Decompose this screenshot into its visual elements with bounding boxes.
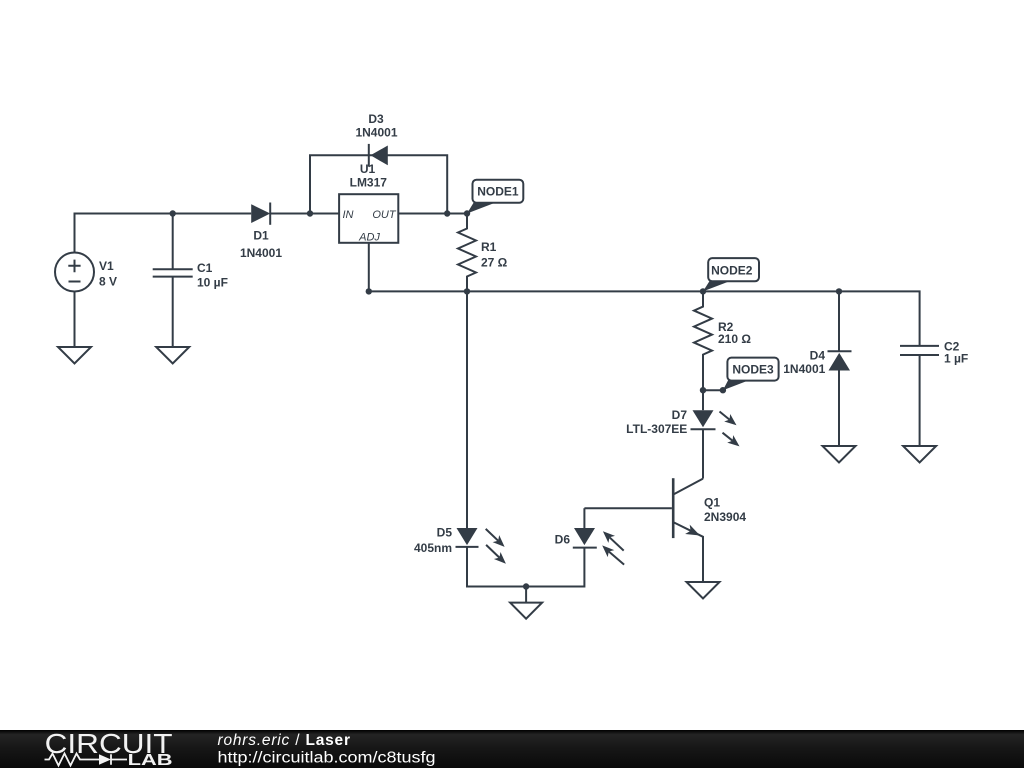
- wire ground stub: [525, 587, 527, 603]
- IC U1 LM317 box: [339, 194, 398, 243]
- node junction on main line at D7 top: [700, 387, 706, 393]
- wire NODE3 tap: [703, 389, 723, 391]
- capacitor C1: [153, 269, 193, 276]
- svg-text:210 Ω: 210 Ω: [718, 332, 751, 346]
- voltage source V1: [55, 253, 94, 292]
- svg-text:R1: R1: [481, 240, 497, 254]
- svg-text:LTL-307EE: LTL-307EE: [626, 422, 687, 436]
- wire D7 cathode to Q1 collector: [702, 429, 704, 478]
- svg-text:D3: D3: [368, 112, 384, 126]
- node junction at NODE2: [700, 288, 706, 294]
- svg-text:V1: V1: [99, 259, 114, 273]
- svg-text:D7: D7: [672, 408, 688, 422]
- node junction at D4 top: [836, 288, 842, 294]
- svg-text:NODE2: NODE2: [711, 264, 753, 278]
- node junction at D3 loop right: [444, 210, 450, 216]
- ground (Q1 emitter): [687, 582, 720, 599]
- svg-text:LAB: LAB: [128, 752, 173, 768]
- svg-text:405nm: 405nm: [414, 541, 452, 555]
- wire D5 bottom, across to D6 bottom: [467, 547, 584, 587]
- LED D7: [691, 390, 740, 446]
- diode D3: [369, 144, 388, 167]
- resistor R2: [694, 291, 712, 390]
- svg-text:Q1: Q1: [704, 495, 720, 509]
- footer bar: [0, 730, 1024, 768]
- svg-text:rohrs.eric / Laser: rohrs.eric / Laser: [218, 732, 351, 749]
- svg-text:D4: D4: [810, 349, 826, 363]
- svg-text:D5: D5: [437, 525, 453, 539]
- node label NODE2: [703, 258, 759, 291]
- diode D4: [828, 291, 852, 446]
- node junction at D3 loop left: [307, 210, 313, 216]
- ground (V1): [58, 347, 91, 364]
- svg-text:C1: C1: [197, 261, 213, 275]
- wire V1 top to D1 anode: [75, 214, 252, 253]
- resistor R1: [458, 214, 476, 292]
- node junction at C1 top: [170, 210, 176, 216]
- svg-text:1N4001: 1N4001: [355, 125, 397, 139]
- svg-text:NODE1: NODE1: [477, 185, 519, 199]
- svg-text:OUT: OUT: [372, 209, 397, 221]
- node junction at ADJ/bus: [366, 288, 372, 294]
- node junction NODE1: [464, 210, 470, 216]
- capacitor C2: [900, 346, 939, 446]
- logo squiggle: [45, 754, 128, 766]
- svg-text:27 Ω: 27 Ω: [481, 255, 508, 269]
- svg-text:1 µF: 1 µF: [944, 351, 968, 365]
- svg-text:IN: IN: [343, 209, 354, 221]
- node label NODE1: [467, 180, 523, 214]
- node junction at shared ground: [523, 583, 529, 589]
- diode D1: [251, 203, 270, 225]
- ground (D5/D6): [510, 603, 542, 619]
- wire R1 bottom down to D5: [466, 291, 468, 528]
- wire C1 bottom lead: [172, 277, 174, 347]
- svg-text:NODE3: NODE3: [732, 363, 774, 377]
- wire main bus to C2: [369, 291, 920, 346]
- svg-text:D1: D1: [253, 228, 269, 242]
- wire V1 bottom to ground: [74, 292, 76, 347]
- svg-text:ADJ: ADJ: [358, 232, 380, 244]
- node junction at R1 bottom: [464, 288, 470, 294]
- node junction NODE3: [720, 387, 726, 393]
- svg-text:http://circuitlab.com/c8tusfg: http://circuitlab.com/c8tusfg: [218, 749, 436, 766]
- wire D6 top to Q1 base wire: [583, 508, 585, 528]
- ground (C1): [156, 347, 189, 364]
- svg-text:1N4001: 1N4001: [240, 246, 282, 260]
- photodiode D6: [573, 528, 624, 565]
- svg-text:LM317: LM317: [350, 175, 388, 189]
- svg-text:1N4001: 1N4001: [783, 362, 825, 376]
- node label NODE3: [723, 358, 779, 391]
- wire U1 ADJ down to bus: [368, 243, 370, 292]
- transistor Q1: [673, 478, 703, 582]
- wire D1 cathode to U1 IN: [270, 213, 339, 215]
- wire U1 OUT to NODE1: [398, 213, 467, 215]
- wire Q1 base: [584, 507, 672, 509]
- svg-text:U1: U1: [360, 162, 376, 176]
- svg-text:10 µF: 10 µF: [197, 276, 228, 290]
- ground (C2): [903, 446, 936, 463]
- svg-text:8 V: 8 V: [99, 274, 117, 288]
- ground (D4): [823, 446, 856, 463]
- wire C1 top lead: [172, 214, 174, 270]
- wire D3 feedback loop: [310, 155, 447, 213]
- LED D5: [456, 528, 506, 564]
- svg-text:D6: D6: [555, 533, 571, 547]
- svg-text:2N3904: 2N3904: [704, 510, 746, 524]
